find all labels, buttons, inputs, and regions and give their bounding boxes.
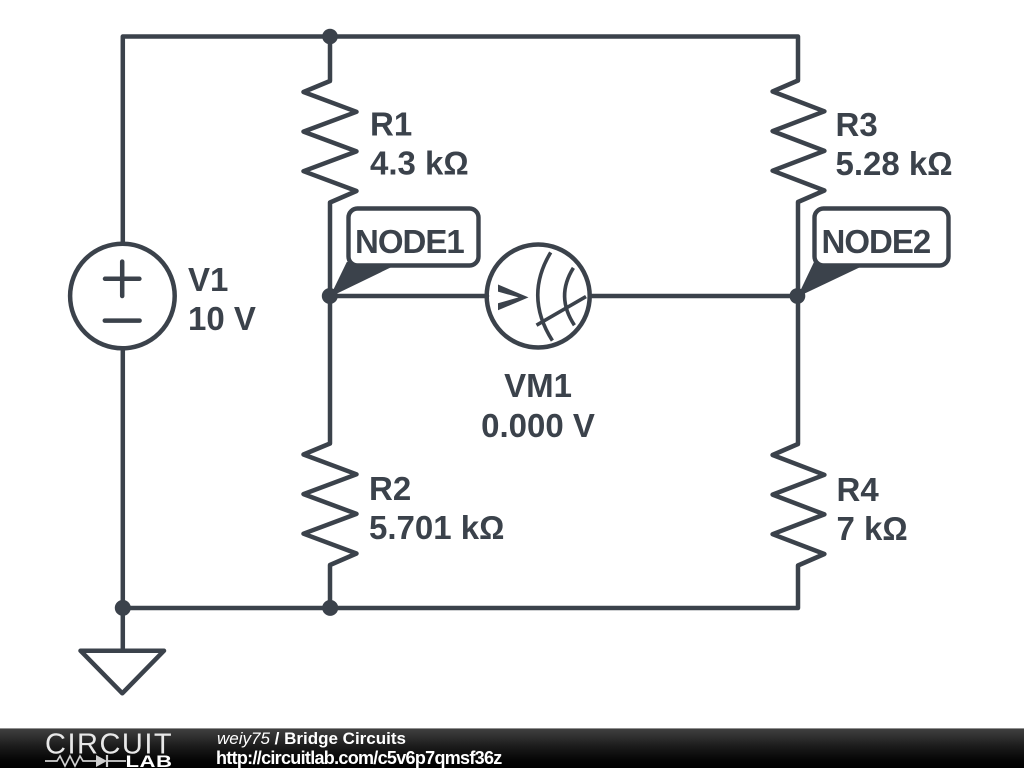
svg-text:5.28 kΩ: 5.28 kΩ: [836, 145, 953, 182]
svg-text:VM1: VM1: [504, 367, 572, 404]
svg-text:10 V: 10 V: [188, 300, 256, 337]
svg-text:0.000 V: 0.000 V: [481, 407, 595, 444]
svg-text:NODE1: NODE1: [355, 223, 464, 260]
svg-text:R4: R4: [837, 471, 880, 508]
svg-text:7 kΩ: 7 kΩ: [837, 510, 908, 547]
svg-text:R3: R3: [836, 106, 878, 143]
svg-text:5.701 kΩ: 5.701 kΩ: [369, 509, 504, 546]
svg-text:4.3 kΩ: 4.3 kΩ: [370, 145, 469, 182]
svg-text:NODE2: NODE2: [822, 223, 931, 260]
svg-text:V1: V1: [188, 261, 228, 298]
svg-text:R1: R1: [370, 106, 412, 143]
svg-text:R2: R2: [369, 470, 411, 507]
svg-text:LAB: LAB: [126, 752, 173, 768]
